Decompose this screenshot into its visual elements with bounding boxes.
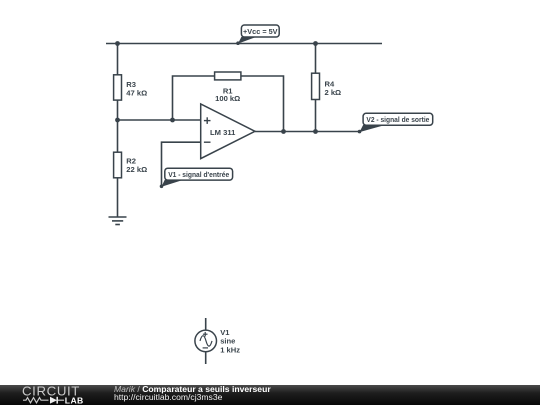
- voltage source V1: [195, 318, 240, 364]
- node V2 flag (signal de sortie): [358, 113, 433, 133]
- CircuitLab logo: [0, 385, 110, 406]
- junction R4 on output wire: [313, 129, 318, 134]
- junction on rail at R3 branch: [115, 41, 120, 46]
- junction feedback tap on + input wire: [170, 118, 175, 123]
- svg-text:22 kΩ: 22 kΩ: [126, 165, 147, 174]
- wire top Vcc rail: [106, 43, 382, 45]
- resistor R1: [215, 72, 241, 103]
- wire rail to R4 top: [315, 44, 317, 74]
- wire rail to R3 top: [117, 44, 119, 76]
- wire R4 bottom to output: [315, 100, 317, 132]
- resistor R2: [114, 152, 148, 178]
- wire R1 right leg down to output: [241, 76, 284, 132]
- svg-text:LAB: LAB: [65, 395, 84, 405]
- svg-text:V1: V1: [220, 328, 230, 337]
- wire R3 bottom to node A: [117, 100, 119, 152]
- op-amp U1 LM 311: [201, 104, 255, 159]
- svg-text:2 kΩ: 2 kΩ: [325, 88, 342, 97]
- wire R2 bottom to ground: [117, 178, 119, 217]
- svg-text:sine: sine: [220, 337, 235, 346]
- wire node A to op-amp + input: [118, 119, 201, 121]
- junction feedback on output wire: [281, 129, 286, 134]
- svg-text:47 kΩ: 47 kΩ: [126, 88, 147, 97]
- junction on rail at R4 branch: [313, 41, 318, 46]
- wire op-amp - input to V1 flag: [162, 142, 201, 185]
- svg-text:100 kΩ: 100 kΩ: [215, 94, 240, 103]
- node A junction (R3/R2/+input): [115, 118, 120, 123]
- svg-text:V1 - signal d'entrée: V1 - signal d'entrée: [168, 170, 229, 179]
- footer credit text: [114, 385, 271, 402]
- resistor R3: [114, 75, 148, 100]
- footer bar: [0, 385, 540, 406]
- resistor R4: [312, 73, 342, 99]
- wire op-amp output: [255, 131, 360, 133]
- svg-text:1 kHz: 1 kHz: [220, 345, 240, 354]
- node V1 flag (signal d'entree): [160, 168, 233, 188]
- wire feedback left leg up and to R1: [173, 76, 215, 120]
- ground: [109, 217, 127, 225]
- node +Vcc flag: [236, 25, 279, 45]
- svg-text:V2 - signal de sortie: V2 - signal de sortie: [366, 115, 429, 124]
- svg-text:+Vcc = 5V: +Vcc = 5V: [243, 27, 278, 36]
- svg-text:LM 311: LM 311: [210, 128, 236, 137]
